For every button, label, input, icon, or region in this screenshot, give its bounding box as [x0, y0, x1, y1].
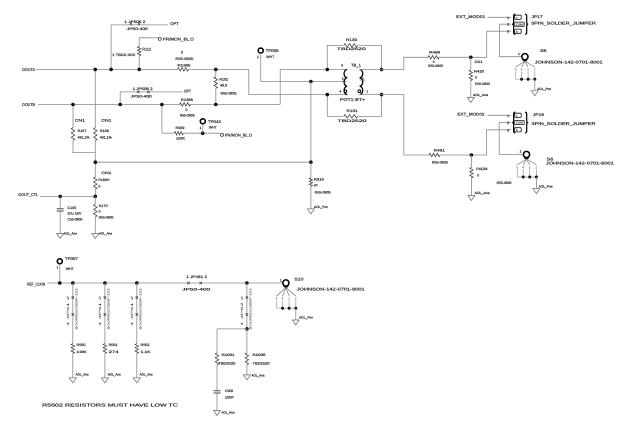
- svg-text:R130: R130: [346, 38, 357, 42]
- svg-text:AOL_Pwr: AOL_Pwr: [314, 205, 329, 209]
- svg-text:5: 5: [516, 166, 518, 170]
- svg-text:1: 1: [257, 55, 259, 59]
- svg-text:1: 1: [507, 16, 509, 20]
- svg-text:R102: R102: [219, 78, 228, 82]
- svg-text:R55-0805: R55-0805: [221, 92, 237, 96]
- svg-text:b: b: [516, 29, 518, 33]
- svg-text:1 JP491 2: 1 JP491 2: [186, 275, 207, 279]
- svg-text:1 JP61 2: 1 JP61 2: [66, 295, 70, 326]
- svg-text:2: 2: [507, 23, 509, 27]
- svg-text:JP17: JP17: [532, 15, 543, 19]
- svg-text:R55-0805: R55-0805: [99, 215, 114, 219]
- svg-text:BOURNS/3386P-103: BOURNS/3386P-103: [249, 288, 253, 329]
- svg-text:3PIN_SOLDER_JUMPER: 3PIN_SOLDER_JUMPER: [532, 121, 596, 126]
- svg-text:2: 2: [295, 297, 297, 301]
- svg-text:150K: 150K: [176, 137, 186, 141]
- svg-text:AOL_Ana: AOL_Ana: [64, 231, 77, 235]
- svg-text:JOHNSON-142-0701-8001: JOHNSON-142-0701-8001: [297, 286, 366, 291]
- svg-text:1 JP61 2: 1 JP61 2: [130, 295, 134, 326]
- svg-text:CN1: CN1: [75, 118, 85, 122]
- svg-text:R1365: R1365: [178, 63, 191, 67]
- svg-text:R55-0805: R55-0805: [428, 64, 443, 68]
- svg-text:TP043: TP043: [208, 120, 221, 124]
- svg-text:JP50-400: JP50-400: [182, 288, 210, 292]
- svg-text:1: 1: [200, 126, 202, 130]
- svg-text:R170: R170: [99, 204, 108, 208]
- svg-text:R169H: R169H: [98, 178, 110, 182]
- svg-text:PR/MON_BL.O: PR/MON_BL.O: [225, 132, 252, 137]
- svg-text:R168: R168: [100, 129, 109, 133]
- svg-text:1: 1: [366, 89, 368, 93]
- svg-text:JOHNSON-142-0701-8001: JOHNSON-142-0701-8001: [546, 161, 615, 166]
- svg-text:AOL_Ana: AOL_Ana: [222, 410, 235, 414]
- svg-text:R1006: R1006: [253, 353, 266, 357]
- svg-text:1.1K: 1.1K: [141, 350, 152, 354]
- svg-text:1 JP506 2: 1 JP506 2: [133, 87, 153, 91]
- svg-text:R55-0805: R55-0805: [180, 114, 195, 118]
- svg-text:5: 5: [515, 68, 517, 72]
- svg-text:COM: COM: [516, 22, 523, 26]
- svg-text:1: 1: [57, 265, 59, 269]
- svg-text:R55-0805: R55-0805: [175, 57, 193, 61]
- svg-text:2: 2: [534, 68, 536, 72]
- svg-text:1: 1: [288, 297, 290, 301]
- svg-text:WHT: WHT: [66, 267, 75, 271]
- svg-text:4: 4: [339, 90, 341, 94]
- svg-text:TBD2520: TBD2520: [218, 362, 235, 366]
- svg-text:S5: S5: [540, 48, 548, 53]
- svg-text:5: 5: [276, 297, 278, 301]
- svg-text:1: 1: [518, 52, 520, 56]
- svg-text:AOL_Ana: AOL_Ana: [99, 231, 112, 235]
- svg-text:R167: R167: [78, 129, 87, 133]
- svg-text:POT1-BT+: POT1-BT+: [340, 97, 366, 102]
- svg-text:0: 0: [475, 76, 477, 80]
- svg-text:0?: 0?: [314, 183, 318, 187]
- svg-text:1 JP62 2: 1 JP62 2: [240, 295, 244, 326]
- svg-text:EXT_MOD01: EXT_MOD01: [456, 15, 485, 19]
- svg-text:COM: COM: [516, 121, 523, 125]
- svg-text:1: 1: [527, 68, 529, 72]
- svg-text:R412M: R412M: [476, 167, 487, 171]
- svg-text:6: 6: [341, 63, 343, 67]
- svg-text:CN1: CN1: [101, 171, 111, 175]
- svg-text:TBD2520: TBD2520: [338, 119, 367, 123]
- svg-text:2: 2: [507, 121, 509, 125]
- svg-text:R55-0805: R55-0805: [475, 82, 490, 86]
- svg-text:R561: R561: [109, 343, 118, 347]
- svg-text:CN1: CN1: [101, 118, 111, 122]
- svg-text:R55-0805: R55-0805: [432, 160, 448, 164]
- svg-text:R55-0805: R55-0805: [315, 191, 331, 195]
- svg-text:TP059: TP059: [266, 49, 279, 53]
- svg-text:1 JP505 2: 1 JP505 2: [124, 20, 145, 24]
- svg-text:REF_CLKIN: REF_CLKIN: [27, 282, 45, 287]
- svg-text:R1366: R1366: [181, 98, 193, 102]
- svg-text:OOUTB: OOUTB: [22, 102, 35, 107]
- svg-text:R112: R112: [142, 47, 151, 51]
- svg-text:CN1: CN1: [475, 60, 483, 64]
- svg-text:R919: R919: [314, 178, 324, 182]
- svg-text:1: 1: [507, 114, 509, 118]
- svg-text:R55-0805: R55-0805: [497, 181, 512, 185]
- svg-text:TBD2520: TBD2520: [337, 47, 366, 51]
- svg-text:OPT: OPT: [170, 21, 179, 26]
- svg-text:AOL_Pwr: AOL_Pwr: [299, 315, 314, 319]
- svg-text:BOURNS/3386P-103: BOURNS/3386P-103: [107, 288, 111, 329]
- svg-text:PR/MON_BL.O: PR/MON_BL.O: [163, 36, 194, 41]
- svg-text:AOL_Ana: AOL_Ana: [140, 373, 153, 377]
- svg-text:S10: S10: [294, 276, 304, 281]
- svg-text:C55-0805: C55-0805: [67, 217, 82, 221]
- svg-text:1 TBD2-X0X: 1 TBD2-X0X: [112, 53, 136, 57]
- svg-text:3PIN_SOLDER_JUMPER: 3PIN_SOLDER_JUMPER: [531, 21, 596, 26]
- svg-text:0: 0: [99, 210, 101, 214]
- svg-text:0: 0: [181, 51, 183, 55]
- svg-text:274: 274: [109, 350, 119, 354]
- svg-text:R939: R939: [176, 126, 185, 130]
- svg-text:R131: R131: [347, 109, 358, 113]
- svg-text:AOL_Ana: AOL_Ana: [108, 373, 121, 377]
- svg-text:OOUTA: OOUTA: [22, 67, 35, 72]
- svg-text:JOHNSON-142-0701-8001: JOHNSON-142-0701-8001: [535, 59, 604, 64]
- svg-text:JP50-400: JP50-400: [127, 27, 148, 31]
- svg-text:0: 0: [186, 108, 188, 112]
- svg-text:0: 0: [98, 185, 100, 189]
- svg-text:OPT: OPT: [184, 89, 191, 94]
- svg-text:R489: R489: [429, 50, 440, 54]
- svg-text:AOL_Ana: AOL_Ana: [252, 374, 265, 378]
- svg-text:4: 4: [282, 297, 284, 301]
- svg-text:100P: 100P: [225, 395, 235, 399]
- svg-text:WHT: WHT: [209, 125, 218, 129]
- svg-text:JP18: JP18: [533, 113, 544, 117]
- svg-text:5: 5: [342, 77, 344, 81]
- svg-text:R5602 RESISTORS MUST HAVE LOW: R5602 RESISTORS MUST HAVE LOW TC: [42, 402, 178, 407]
- svg-text:WHT: WHT: [266, 55, 275, 59]
- svg-text:R562: R562: [141, 343, 150, 347]
- svg-text:491,1%: 491,1%: [78, 136, 90, 140]
- svg-text:2: 2: [535, 166, 537, 170]
- svg-text:R560: R560: [77, 343, 86, 347]
- svg-text:4: 4: [522, 166, 524, 170]
- svg-text:1: 1: [520, 150, 522, 154]
- svg-text:1 JP61 2: 1 JP61 2: [98, 295, 102, 326]
- svg-text:4: 4: [521, 68, 523, 72]
- svg-text:TB_1: TB_1: [351, 63, 361, 67]
- svg-text:AOL_Pwr: AOL_Pwr: [537, 87, 552, 91]
- svg-text:BOURNS/3386P-103: BOURNS/3386P-103: [74, 288, 78, 329]
- svg-text:49.9: 49.9: [220, 84, 227, 88]
- svg-text:TBD2520: TBD2520: [253, 362, 270, 366]
- svg-text:0: 0: [477, 173, 479, 177]
- svg-text:AOL_Ana: AOL_Ana: [475, 191, 490, 195]
- svg-text:C105: C105: [67, 206, 76, 210]
- svg-text:AOL_Ana: AOL_Ana: [76, 373, 89, 377]
- svg-text:TP057: TP057: [65, 257, 78, 261]
- svg-text:2: 2: [362, 77, 364, 81]
- svg-text:R491: R491: [434, 148, 445, 152]
- svg-text:BOURNS/3386P-103: BOURNS/3386P-103: [138, 288, 142, 329]
- svg-text:b: b: [516, 128, 518, 132]
- svg-text:10u 16V: 10u 16V: [67, 212, 82, 216]
- svg-text:OOUT_CTL: OOUT_CTL: [18, 192, 39, 197]
- svg-text:1: 1: [280, 278, 282, 282]
- svg-text:R1001: R1001: [222, 353, 235, 357]
- svg-text:AOL_Pwr: AOL_Pwr: [539, 185, 554, 189]
- svg-text:1: 1: [529, 166, 531, 170]
- svg-text:JP50-400: JP50-400: [131, 95, 152, 99]
- svg-text:AOL_Ana: AOL_Ana: [473, 93, 488, 97]
- svg-text:C99: C99: [225, 389, 233, 393]
- svg-text:3: 3: [507, 30, 509, 34]
- svg-text:EXT_MOD02: EXT_MOD02: [457, 112, 484, 116]
- svg-text:491,1%: 491,1%: [100, 136, 112, 140]
- svg-text:4.99K: 4.99K: [77, 350, 88, 354]
- svg-text:3: 3: [507, 128, 509, 132]
- svg-text:R420: R420: [474, 69, 484, 73]
